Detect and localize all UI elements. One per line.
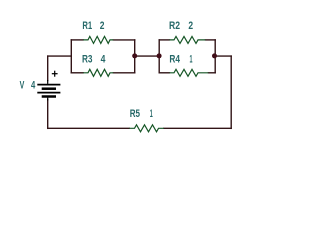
wire R3 left lead maroon (71, 72, 83, 74)
wire R4 left lead maroon (159, 72, 169, 74)
wire mid feed horizontal (48, 55, 72, 57)
svg-text:2: 2 (188, 20, 193, 32)
svg-text:1: 1 (190, 53, 193, 65)
wire group2 output to right (215, 55, 231, 57)
wire R2 right lead maroon (205, 39, 215, 41)
resistor R4 (169, 69, 208, 76)
junction node A (group1 right bar) (132, 53, 137, 58)
wire group2 left bar (158, 40, 160, 73)
svg-text:R2: R2 (169, 20, 180, 32)
resistor R3 (83, 69, 113, 76)
svg-text:V: V (20, 79, 25, 91)
svg-text:4: 4 (31, 79, 36, 91)
wire R4 right lead maroon (208, 72, 215, 74)
resistor R2 (169, 36, 205, 43)
svg-text:R4: R4 (169, 53, 180, 65)
svg-text:2: 2 (100, 20, 105, 32)
battery plus sign (52, 71, 58, 77)
svg-text:R3: R3 (82, 53, 93, 65)
wire group2 right bar (214, 40, 216, 73)
svg-text:R5: R5 (130, 108, 140, 120)
battery V symbol (37, 80, 60, 101)
svg-text:4: 4 (101, 53, 106, 65)
wire bottom left segment (48, 127, 130, 129)
resistor R5 (129, 125, 164, 132)
wire battery top vertical (47, 56, 49, 80)
wire R1 right lead maroon (113, 39, 134, 41)
svg-text:R1: R1 (82, 20, 92, 32)
junction node B (group2 left bar) (157, 53, 162, 58)
wire group1 left bar (70, 40, 72, 73)
wire right vertical (230, 56, 232, 128)
wire R2 left lead maroon (159, 39, 169, 41)
wire group1 right bar (134, 40, 136, 73)
svg-text:1: 1 (150, 108, 153, 120)
wire R3 right lead maroon (113, 72, 134, 74)
wire between groups (135, 55, 160, 57)
junction node C (group2 right bar) (212, 53, 217, 58)
wire battery bottom vertical (47, 100, 49, 129)
wire R1 left lead maroon (71, 39, 83, 41)
resistor R1 (83, 36, 113, 43)
wire bottom right segment (164, 127, 231, 129)
